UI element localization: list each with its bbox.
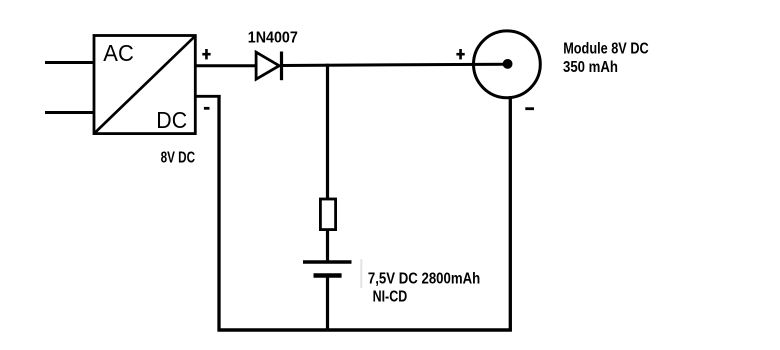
- scan artifact faint line: [360, 259, 362, 288]
- minus sign at jack: [525, 107, 534, 110]
- wire AC input top: [45, 61, 94, 64]
- wire battery to bus: [326, 278, 329, 332]
- wire jack to bus: [509, 97, 512, 331]
- svg-text:7,5V DC 2800mAh: 7,5V DC 2800mAh: [368, 271, 480, 288]
- svg-text:NI-CD: NI-CD: [373, 288, 408, 305]
- svg-text:Module 8V DC: Module 8V DC: [563, 41, 649, 58]
- plus sign at jack: [456, 49, 464, 59]
- wire diode to jack: [282, 64, 508, 65]
- battery BT1 positive plate: [303, 260, 352, 264]
- svg-text:DC: DC: [156, 107, 187, 133]
- output jack center pin dot: [503, 59, 513, 69]
- diode D1 cathode bar: [280, 52, 283, 81]
- plus sign at converter output: [202, 49, 210, 59]
- diode D1 1N4007 triangle: [256, 52, 279, 79]
- wire AC input bottom: [45, 111, 94, 114]
- wire bottom bus: [218, 328, 512, 331]
- resistor R1: [320, 199, 335, 230]
- wire node to resistor: [326, 64, 329, 199]
- wire converter to diode: [195, 64, 256, 67]
- svg-text:AC: AC: [103, 40, 134, 66]
- wire left return vertical: [217, 95, 220, 332]
- AC/DC converter U1 box: [94, 36, 195, 134]
- battery BT1 negative plate: [314, 273, 342, 277]
- svg-text:1N4007: 1N4007: [248, 29, 298, 46]
- AC/DC converter diagonal: [95, 36, 195, 133]
- svg-text:8V DC: 8V DC: [161, 150, 196, 167]
- minus sign at converter output: [204, 107, 210, 110]
- svg-text:350 mAh: 350 mAh: [563, 59, 618, 76]
- wire resistor to battery: [326, 230, 329, 261]
- output jack J1 circle: [474, 31, 541, 98]
- wire converter minus stub: [195, 95, 220, 98]
